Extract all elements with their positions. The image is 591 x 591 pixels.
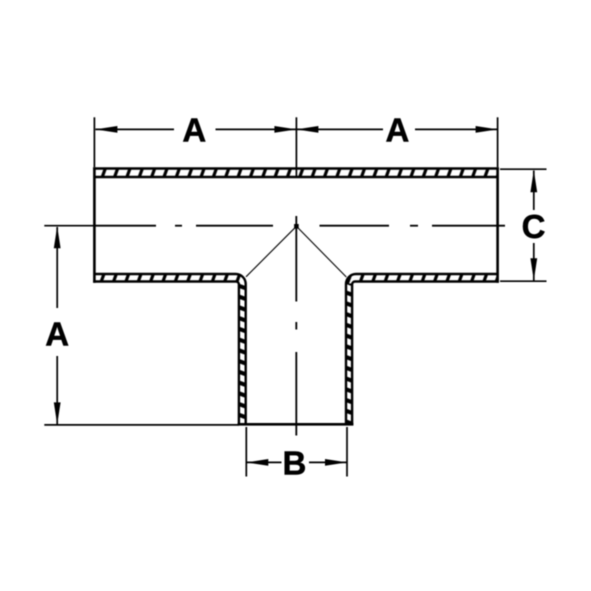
svg-text:B: B: [282, 444, 306, 481]
tee body: left end face: [93, 167, 96, 282]
weld prep diagonal right: [296, 226, 346, 277]
dimension A top-right: extension line right: [497, 117, 499, 167]
svg-text:C: C: [522, 208, 546, 245]
dimension A left: dimension line: [56, 227, 58, 308]
arrow B right: [325, 459, 347, 466]
arrow C down: [530, 258, 537, 280]
dimension A left: extension line bottom: [44, 424, 239, 426]
horizontal centerline: [95, 225, 505, 227]
dimension B: dimension line right part: [309, 461, 347, 463]
arrow center pointing right: [274, 126, 296, 133]
tee body: main run top wall inner line: [94, 176, 497, 178]
dimension A top: extension line center: [295, 117, 297, 178]
dimension B: dimension line left part: [246, 461, 281, 463]
svg-text:A: A: [385, 111, 409, 148]
arrow C up: [530, 170, 537, 192]
arrow up: [54, 226, 61, 248]
weld prep diagonal left: [246, 226, 296, 276]
dimension A left: extension line top: [44, 225, 96, 227]
tee body: bottom wall + branch wall hatch band (right): [343, 272, 499, 426]
arrow right outward: [476, 126, 498, 133]
tee body: bottom wall inner line (left) with fillet: [94, 274, 245, 424]
dimension C: dimension line top part: [533, 171, 535, 211]
arrow B left: [246, 459, 268, 466]
dimension B: extension line left: [245, 427, 247, 477]
apex junction dot: [294, 224, 299, 229]
vertical centerline: [295, 216, 297, 436]
tee body: branch bottom end face: [238, 423, 354, 426]
tee body: right end face: [496, 167, 499, 282]
dimension C: extension line top: [500, 168, 547, 170]
tee body: bottom wall inner line (right) with fillet: [346, 274, 498, 424]
svg-text:A: A: [182, 111, 206, 148]
arrow left outward: [95, 126, 117, 133]
dimension C: extension line bottom: [500, 280, 547, 282]
svg-text:A: A: [45, 316, 69, 353]
tee body: bottom wall + branch wall hatch band (left): [93, 272, 248, 426]
arrow down: [54, 402, 61, 424]
tee body: main run top wall outer line: [93, 167, 499, 169]
tee body: bottom wall outer line (left) with fillet: [93, 282, 239, 425]
dimension A top-left: dimension line: [95, 128, 174, 130]
dimension A top-right: dimension line: [297, 128, 383, 130]
arrow center pointing left: [296, 126, 318, 133]
dimension B: extension line right: [346, 427, 348, 477]
tee body: bottom wall outer line (right) with fillet: [352, 282, 499, 425]
dimension A top-left: extension line left: [93, 117, 95, 167]
dimension C: dimension line bottom part: [533, 243, 535, 281]
tee body: main run top wall hatch: [94, 170, 497, 177]
